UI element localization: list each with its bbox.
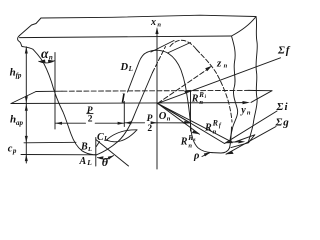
P/2 left extension line [123,102,125,127]
svg-text:s: s [193,138,196,143]
arrowhead theta left [98,156,104,159]
rack right end corner curve [232,17,257,37]
central crest left flank [128,52,148,92]
svg-text:C: C [97,132,104,143]
fillet leaf shape upper arc [107,130,138,140]
svg-text:n: n [224,63,228,70]
rack left broken edge squiggle [18,36,22,47]
gap bottom land line [21,154,97,156]
svg-text:D: D [120,62,129,73]
svg-text:l: l [121,91,125,105]
arrowhead x_n axis [155,27,158,34]
projection vertical at R tips [190,91,192,132]
svg-text:x: x [150,17,156,28]
central crest right flank [169,54,191,129]
left gap right fillet [97,111,137,155]
arrowhead alpha left [39,60,46,63]
svg-text:θ: θ [102,155,109,169]
pitch plane far edge dashed [62,89,249,92]
arrowhead h_ap bottom [25,136,28,143]
dimension vertical line h_fp h_ap c_p [25,47,27,163]
P/2 right dimension line [125,122,191,124]
rack top-left jog [20,18,42,36]
vector R_n_Rf [158,103,191,123]
svg-text:Σi: Σi [276,101,289,113]
arrowhead P2 left outer [55,122,62,125]
theta angle arc [98,156,114,160]
right gap left fillet [191,128,212,153]
svg-text:Σg: Σg [275,116,290,128]
arrowhead P2 right at axis [151,121,158,124]
svg-text:z: z [216,57,222,69]
svg-text:Σf: Σf [277,45,291,57]
arrowhead y_n axis [243,101,251,104]
arrowhead h_fp top [25,47,28,54]
svg-text:P: P [147,114,153,124]
theta vertex vertical line [95,138,97,167]
arrowhead R_n_Rs [192,130,200,134]
svg-text:R: R [204,122,212,133]
x_n axis vertical [156,29,158,169]
svg-text:ρ: ρ [193,151,200,162]
svg-text:B: B [80,142,88,153]
svg-text:α: α [41,46,49,61]
vector R_n_Rs [158,103,200,134]
pitch plane left diagonal [11,92,36,104]
arrowhead alpha right [48,60,54,63]
arrowhead short right vector [238,140,245,143]
svg-text:fp: fp [16,71,22,79]
arrowhead z_n axis [205,66,212,71]
pitch plane right diagonal [251,91,272,103]
svg-text:n: n [167,115,171,122]
Sigma-i leader [225,111,277,143]
rack top edge line [41,15,256,18]
arrowhead R_n_Rf [183,121,191,124]
z_n axis dashed [158,68,209,103]
rack root line (band bottom) [20,36,232,38]
crest top surface right connector [168,43,191,54]
svg-text:2: 2 [88,115,93,125]
arrowhead h_ap top [25,104,28,111]
rack right torn edge (freehand) [248,17,257,143]
svg-text:O: O [159,111,167,122]
vector to back fillet B [158,103,225,143]
arrowhead theta right [108,156,114,160]
svg-text:R: R [212,119,219,128]
theta diagonal line [96,140,129,167]
pitch plane near edge with y_n axis [11,102,244,105]
left tooth flank (profile D_L) [22,47,97,155]
svg-text:p: p [12,147,17,155]
svg-text:y: y [240,105,246,116]
svg-text:R: R [198,91,204,99]
svg-text:ap: ap [16,119,24,127]
arrowhead rho leader [204,152,211,156]
crest top surface left connector [151,41,174,53]
svg-text:L: L [87,146,92,153]
back crest arc dashed [170,40,197,49]
svg-text:n: n [213,128,217,135]
back flank of left gap dashed continuation [153,47,166,73]
svg-text:L: L [128,65,133,73]
arrowhead Sigma-i leader [225,140,233,143]
vector to back fillet A [158,103,230,140]
svg-text:n: n [157,21,161,28]
alpha_n reference vertical [54,53,56,130]
svg-text:2: 2 [147,124,152,134]
svg-text:L: L [103,135,108,143]
arrowhead P2 left inner [118,122,125,125]
right gap back bottom edge [231,135,255,148]
rack inner torn edge (freehand) [230,36,238,141]
C_L leader [96,142,99,147]
Sigma-g leader [226,127,276,155]
svg-text:R: R [187,134,193,142]
central crest top arc [147,50,169,53]
pitch plane far edge solid part [36,90,62,92]
P/2 left dimension line [55,122,124,124]
right gap right flank rising [230,127,232,148]
svg-text:R: R [180,136,188,147]
svg-text:f: f [219,123,222,129]
right gap bottom land [212,148,230,153]
svg-text:n: n [49,54,53,62]
svg-text:i: i [205,95,207,100]
rho leader [202,153,210,157]
arrowhead h_fp bottom [25,96,28,103]
pitch plane far edge right solid [249,89,272,91]
arrowhead R_n_Ri [184,90,191,94]
back flank of left gap (visible through gap) [136,73,153,112]
fillet leaf shape lower arc [107,130,138,142]
back crest right flank dashed [197,50,233,123]
svg-text:n: n [247,109,251,116]
c_p upper reference line [24,141,76,144]
svg-text:A: A [79,156,87,167]
svg-text:n: n [199,99,203,106]
svg-text:n: n [188,142,192,149]
arrowhead Sigma-g leader [226,151,234,154]
alpha_n angle arc [39,61,54,63]
svg-text:R: R [191,94,199,105]
short vector along back bottom [231,141,240,143]
arrowhead P2 right inner [125,121,132,124]
vector R_n_Ri and Sigma-f leader [158,58,281,104]
arrowhead c_p bottom [25,154,28,161]
svg-text:L: L [86,158,92,167]
